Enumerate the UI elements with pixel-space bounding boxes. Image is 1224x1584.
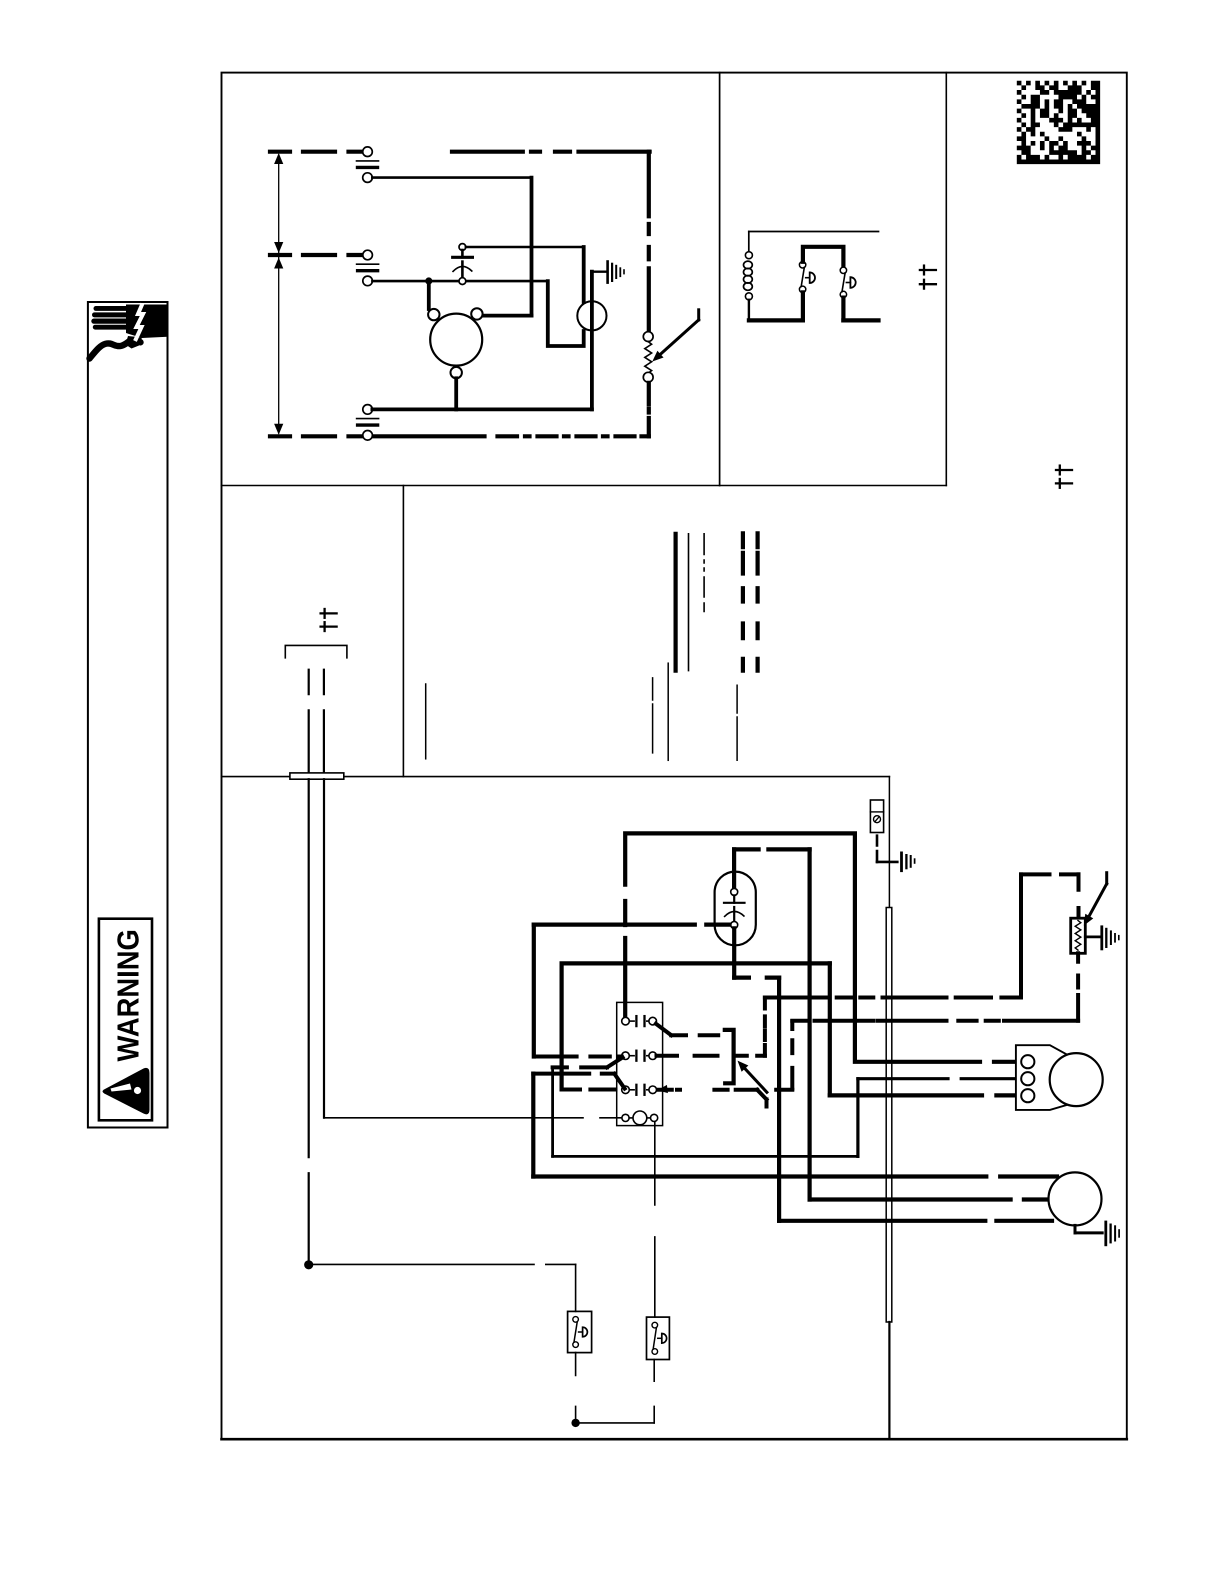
junction node bottom	[571, 1419, 579, 1427]
wire relay inset bottom left	[749, 318, 803, 322]
ground fuse	[900, 852, 903, 873]
wire fuse to ground	[876, 836, 879, 862]
wire heater riser dashes	[1019, 874, 1023, 997]
legend line thick solid	[673, 534, 677, 671]
contact terminal pair T1	[363, 147, 373, 157]
wire main rail vertical	[888, 777, 890, 908]
bracket field wiring	[285, 645, 347, 657]
fan motor	[577, 301, 606, 330]
wire oval to B drop	[732, 928, 736, 977]
ground fan	[606, 260, 609, 284]
wire D run to fan2 middle	[810, 1197, 1049, 1201]
wire pole2 lower slant	[607, 1057, 623, 1067]
contact terminal pair T3	[363, 405, 373, 415]
legend sample line 4	[736, 685, 738, 760]
wire L2 dashed line	[270, 253, 362, 257]
icon electric shock hand	[90, 304, 168, 359]
note dagger marks right strip	[1056, 469, 1072, 471]
wire heater lower drop	[1076, 953, 1080, 1021]
wire fan to ground	[592, 271, 606, 273]
switch safety 1	[568, 1311, 592, 1352]
wire heater top run	[1021, 872, 1079, 876]
legend line thick dashed B	[755, 533, 759, 670]
coil contactor coil	[748, 232, 750, 252]
wire V4 drop	[531, 1074, 535, 1177]
wire field pair right	[323, 670, 325, 773]
wire capacitor to fan leg	[466, 246, 584, 248]
wire horizontal band separator	[222, 776, 890, 778]
wire V5 drop	[551, 1067, 554, 1156]
barcode data matrix	[1017, 81, 1100, 164]
plug bracket	[725, 1030, 734, 1083]
wire oval bottom left bus	[534, 922, 730, 926]
dimension line with arrows	[278, 155, 280, 433]
wire inset box bottom border	[222, 485, 947, 487]
switch safety 2	[647, 1317, 670, 1359]
wire loop under fan	[548, 281, 584, 346]
contact contactor pole 2	[622, 1052, 630, 1060]
contactor box	[617, 1002, 663, 1125]
switch pressure contact B	[840, 267, 846, 273]
coil contactor	[622, 1114, 629, 1121]
contact contactor pole 1	[622, 1017, 630, 1025]
wire big U loop	[625, 833, 980, 1061]
wire L3 dashed left	[270, 434, 362, 438]
wire field pair left lower	[308, 779, 310, 1260]
wire from T2 junction run	[372, 280, 547, 283]
legend line thick dashed A	[741, 533, 745, 670]
wire L3 dash-dot bottom right	[498, 434, 649, 438]
resistor crankcase heater	[1077, 874, 1081, 918]
wire L1 dash-dot continuation	[452, 150, 650, 154]
wire contact A drop	[801, 292, 805, 320]
wire E drop to compressor2 bottom	[828, 963, 832, 1095]
wire compressor bottom feed	[454, 378, 458, 409]
wire fan feed through	[590, 272, 594, 410]
wire B drop to fan2 lower	[777, 978, 781, 1221]
note dagger marks inset	[920, 269, 936, 271]
wire mid bus	[562, 963, 830, 1089]
wire L1 dashed line	[270, 150, 362, 154]
contact contactor pole 3	[622, 1086, 630, 1094]
wire L3 bottom solid	[372, 434, 484, 438]
wire switch2 lower	[653, 1360, 655, 1423]
legend line thin solid	[688, 534, 690, 671]
wire pole3 right dash-dot	[659, 1088, 793, 1092]
wire G riser	[856, 1079, 859, 1157]
wire field pair left	[308, 670, 310, 773]
wire contact A jumper	[803, 247, 844, 267]
connector terminal strip	[290, 773, 344, 779]
wire switch1 lower	[575, 1353, 577, 1423]
wire cross run	[553, 1155, 858, 1158]
fan motor 2	[1049, 1172, 1102, 1225]
wire band drop line	[402, 486, 404, 777]
wire bottom bus	[372, 407, 592, 411]
contact terminal pair T2	[363, 250, 373, 260]
junction node field	[304, 1260, 313, 1269]
switch pressure contact A	[799, 262, 805, 268]
capacitor run capacitor	[459, 244, 466, 251]
wire relay inset top	[749, 231, 879, 233]
wire C riser dashed	[790, 1021, 794, 1088]
wire pole1 slant out	[656, 1024, 671, 1035]
legend sample line 2	[652, 678, 654, 753]
note dagger marks band	[321, 612, 337, 614]
wire A riser dash-dot	[763, 998, 767, 1056]
wire bottom link	[576, 1422, 655, 1424]
wire rail lower	[888, 1322, 890, 1439]
warning triangle icon	[103, 1068, 150, 1114]
junction node	[425, 277, 432, 284]
wire dash-dot below resistor	[647, 383, 651, 437]
ground fan2	[1104, 1221, 1107, 1247]
wire relay inset bottom right	[843, 318, 878, 322]
wire switch2 feed	[654, 1122, 656, 1317]
wire coil feed	[324, 1117, 621, 1119]
arrow heater pointer	[1105, 873, 1108, 884]
wire pole2 left feed	[534, 1055, 621, 1059]
ground crankcase	[1085, 936, 1099, 939]
compressor motor 2	[1016, 1045, 1067, 1110]
bus bar rail	[886, 908, 892, 1323]
wire pole1 dashes to plug	[671, 1033, 718, 1037]
arrow adjustment pointer	[697, 310, 700, 320]
warning banner box	[88, 302, 168, 1128]
wire contact B drop	[841, 298, 845, 321]
resistor heater element	[643, 332, 653, 342]
svg-text:WARNING: WARNING	[112, 929, 146, 1061]
arrow plug pointer	[742, 1065, 767, 1092]
wire A top run	[765, 996, 1021, 1000]
wire fan2 ground link	[1074, 1225, 1077, 1233]
warning label box	[99, 919, 152, 1121]
wire V1 drop	[532, 925, 536, 1057]
wire heater bottom run	[792, 1019, 1078, 1023]
legend sample line 3	[667, 663, 669, 760]
wire low volt run	[313, 1263, 575, 1265]
wire inner U loop	[734, 847, 810, 851]
wire big U to compressor2 top	[994, 1060, 1021, 1064]
wire from T1 to right	[372, 176, 531, 179]
wire pole3 left feed	[562, 1088, 616, 1092]
wire to fan2 upper	[533, 1174, 1057, 1178]
wire junction to compressor terminal	[427, 281, 431, 309]
fuse holder	[870, 800, 883, 833]
wire low volt drop to switch1	[575, 1264, 577, 1311]
wire field pair right lower	[323, 779, 325, 1117]
compressor motor	[430, 314, 482, 366]
legend line thin dash-dot	[703, 534, 705, 612]
wire inset box divider right	[945, 73, 947, 486]
wire pole3 upper feed	[533, 1072, 589, 1076]
wire inset box divider left	[719, 73, 721, 486]
wire dash-dot right leg	[647, 152, 651, 332]
legend sample line 1	[425, 684, 427, 759]
pressure switch oval	[715, 872, 756, 946]
wire pole2 right dash-dot	[657, 1054, 765, 1058]
wire right leg to compressor	[530, 178, 534, 316]
